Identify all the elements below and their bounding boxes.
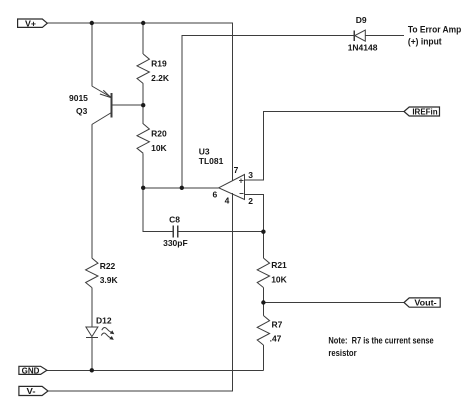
- svg-text:.47: .47: [270, 334, 282, 344]
- svg-text:10K: 10K: [271, 275, 287, 285]
- svg-text:2.2K: 2.2K: [151, 73, 170, 83]
- svg-text:3.9K: 3.9K: [100, 275, 119, 285]
- svg-text:R22: R22: [100, 261, 116, 271]
- svg-text:6: 6: [213, 190, 218, 200]
- svg-text:Note: R7 is the current sense: Note: R7 is the current sense: [328, 336, 433, 346]
- svg-text:GND: GND: [22, 366, 40, 375]
- svg-text:Q3: Q3: [76, 106, 88, 116]
- svg-text:R7: R7: [272, 320, 283, 330]
- svg-text:TL081: TL081: [199, 156, 224, 166]
- svg-text:10K: 10K: [151, 143, 167, 153]
- svg-text:R21: R21: [271, 260, 287, 270]
- svg-text:4: 4: [225, 195, 230, 205]
- svg-text:2: 2: [248, 196, 253, 206]
- svg-text:D9: D9: [356, 15, 367, 25]
- svg-text:3: 3: [248, 170, 253, 180]
- svg-text:R20: R20: [151, 129, 167, 139]
- svg-text:V-: V-: [27, 387, 36, 396]
- svg-text:IREFin: IREFin: [412, 108, 437, 117]
- svg-text:V+: V+: [25, 19, 36, 28]
- svg-text:U3: U3: [199, 146, 210, 156]
- svg-text:9015: 9015: [69, 93, 88, 103]
- svg-text:1N4148: 1N4148: [348, 42, 378, 52]
- svg-text:C8: C8: [169, 215, 180, 225]
- svg-text:7: 7: [234, 165, 239, 175]
- svg-text:Vout-: Vout-: [414, 298, 436, 308]
- svg-text:R19: R19: [151, 58, 167, 68]
- svg-text:(+) input: (+) input: [408, 37, 442, 47]
- svg-text:To Error Amp: To Error Amp: [408, 24, 462, 34]
- svg-text:330pF: 330pF: [163, 238, 188, 248]
- svg-text:resistor: resistor: [328, 348, 357, 358]
- svg-text:D12: D12: [96, 315, 112, 325]
